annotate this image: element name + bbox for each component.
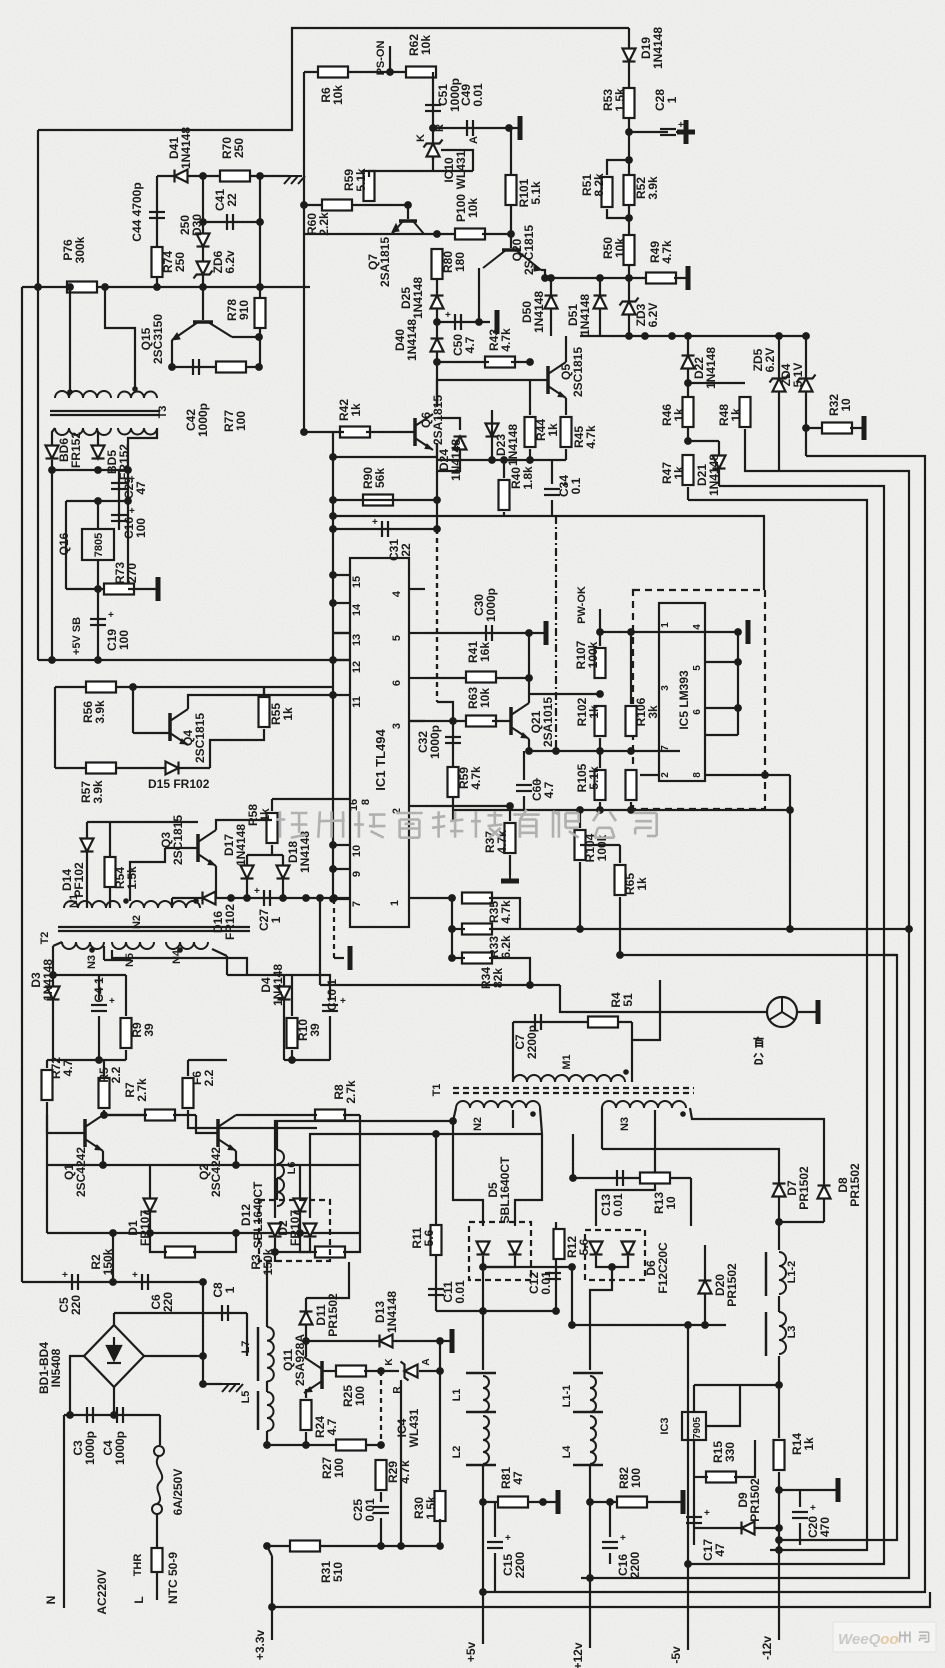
- resistor R45: [561, 417, 572, 447]
- svg-text:IC5 LM393: IC5 LM393: [677, 670, 691, 730]
- svg-text:+12v: +12v: [571, 1642, 585, 1668]
- wire C10 join: [329, 1035, 331, 1060]
- svg-text:3k: 3k: [646, 705, 660, 719]
- resistor R34: [462, 953, 492, 964]
- svg-text:3.9k: 3.9k: [646, 176, 660, 200]
- svg-text:0.01: 0.01: [363, 1498, 377, 1522]
- label C15: [501, 1551, 527, 1578]
- svg-text:470: 470: [818, 1517, 832, 1537]
- svg-text:5.1k: 5.1k: [354, 168, 368, 192]
- junction: [433, 230, 441, 238]
- wire fan stub: [745, 1011, 767, 1013]
- label D19: [639, 27, 665, 69]
- label C30: [472, 588, 498, 622]
- junction: [199, 283, 207, 291]
- wire 7905 bot: [693, 1440, 695, 1545]
- label fan glyphs: [754, 1053, 763, 1063]
- wire C19 col: [97, 589, 99, 657]
- label D25: [399, 277, 425, 319]
- wire Q20 coll wire: [541, 270, 545, 278]
- label R107: [574, 640, 600, 669]
- wire Q20 emit col: [478, 268, 480, 322]
- svg-text:10: 10: [351, 845, 363, 857]
- resistor R73: [104, 584, 134, 595]
- capacitor C3: [87, 1407, 93, 1423]
- wire y898 down: [171, 898, 173, 907]
- wire Q1 base: [47, 1115, 85, 1133]
- junction: [569, 1174, 577, 1182]
- junction: [429, 124, 437, 132]
- wire y810 bottom rail: [453, 809, 790, 811]
- wire R49 gnd stub: [674, 277, 688, 279]
- svg-text:L2: L2: [451, 1446, 463, 1459]
- svg-text:51: 51: [621, 993, 635, 1007]
- wire C16 bot: [609, 1553, 611, 1564]
- svg-text:3.9k: 3.9k: [91, 780, 105, 804]
- label R81: [499, 1467, 525, 1489]
- wire R34 rail2: [489, 958, 530, 985]
- wire R37 bot: [509, 855, 511, 875]
- svg-text:100: 100: [629, 1468, 643, 1488]
- junction: [616, 951, 624, 959]
- label D14: [60, 862, 86, 898]
- junction: [404, 201, 412, 209]
- watermark weeqoo cjk: [899, 1631, 910, 1642]
- svg-text:2200p: 2200p: [525, 1025, 539, 1059]
- inductor L6: [277, 1150, 284, 1206]
- wire T2 tap1: [52, 946, 54, 975]
- svg-text:+: +: [810, 1503, 816, 1514]
- wire +5 col3: [482, 1592, 484, 1644]
- pot P100: [455, 229, 485, 240]
- wire x334 gnd stub: [334, 957, 344, 959]
- svg-text:4: 4: [391, 590, 403, 597]
- wire R3 conn: [300, 1233, 317, 1252]
- wire D4 top: [227, 974, 292, 976]
- resistor R47: [683, 455, 694, 485]
- svg-text:C10 1: C10 1: [325, 979, 339, 1011]
- bridge rectifier BD1-BD4: [84, 1325, 144, 1387]
- capacitor C12: [545, 1273, 561, 1279]
- svg-text:WL431: WL431: [407, 1408, 421, 1447]
- svg-text:300k: 300k: [73, 236, 87, 263]
- junction: [625, 214, 633, 222]
- label R55: [269, 703, 295, 725]
- dual diode D6 box: [585, 1230, 645, 1280]
- junction: [100, 1111, 108, 1119]
- wire R29 bot: [380, 1492, 382, 1502]
- svg-text:R: R: [434, 124, 446, 132]
- junction: [684, 437, 692, 445]
- transistor Q15 body: [172, 322, 232, 340]
- label R59: [342, 168, 368, 192]
- wire T2 tap2c: [104, 958, 130, 960]
- wire D6 down: [590, 1267, 612, 1370]
- wire LM393 pin7: [705, 734, 738, 736]
- label D51: [566, 294, 592, 336]
- label R82: [617, 1467, 643, 1489]
- transformer T3 secondary2: [118, 428, 157, 435]
- label C60: [530, 779, 556, 801]
- svg-text:6A/250V: 6A/250V: [171, 1469, 185, 1516]
- svg-text:1000p: 1000p: [484, 588, 498, 622]
- junction: [525, 674, 533, 682]
- transformer T2 winding N5: [112, 942, 154, 949]
- resistor R62: [406, 67, 436, 78]
- junction: [316, 894, 324, 902]
- wire LM393 right v: [737, 632, 739, 735]
- label C7: [513, 1025, 539, 1059]
- resistor R101: [506, 175, 517, 205]
- svg-text:1.5k: 1.5k: [613, 88, 627, 112]
- label Q20: [510, 225, 536, 275]
- wire C60 bot: [523, 796, 525, 810]
- svg-text:100k: 100k: [586, 641, 600, 668]
- junction: [436, 1542, 444, 1550]
- wire y234: [304, 233, 458, 235]
- junction: [101, 283, 109, 291]
- wire Q7 base stub: [407, 205, 409, 219]
- diode D12b: [304, 1224, 317, 1237]
- wire R44 col: [529, 380, 531, 415]
- wire AC N: [63, 1415, 65, 1608]
- pin 4 stub: [409, 588, 425, 590]
- label R33: [487, 935, 513, 959]
- wire R78 col: [259, 176, 261, 367]
- wire x113: [112, 1233, 114, 1282]
- transformer T2 winding N4: [166, 942, 208, 949]
- wire R55 col: [263, 687, 265, 695]
- label C17: [701, 1539, 727, 1561]
- svg-text:10: 10: [839, 398, 853, 412]
- wire Q20 base stub: [510, 234, 512, 248]
- svg-text:10k: 10k: [331, 85, 345, 105]
- junction: [506, 802, 514, 810]
- label R49: [648, 240, 674, 264]
- junction: [433, 358, 441, 366]
- svg-text:1N4148: 1N4148: [707, 454, 721, 496]
- wire D22 col: [687, 336, 689, 441]
- junction: [296, 1229, 304, 1237]
- wire N2 left end: [453, 1108, 456, 1121]
- capacitor C13: [617, 1170, 623, 1186]
- svg-text:L1-2: L1-2: [786, 1261, 798, 1284]
- label D2: [276, 1210, 302, 1246]
- chassis ground bridge: [220, 1384, 243, 1392]
- wire M1 left: [512, 1022, 514, 1082]
- label C16: [122, 517, 148, 539]
- svg-text:2.2k: 2.2k: [317, 212, 331, 236]
- svg-text:8.2k: 8.2k: [592, 173, 606, 197]
- wire N2 right end: [540, 1108, 542, 1134]
- svg-text:2.7k: 2.7k: [344, 1080, 358, 1104]
- wire R101 col: [510, 128, 512, 234]
- resistor R80: [432, 249, 443, 279]
- wire R11 col: [435, 1134, 437, 1311]
- wire LM393 bottom: [640, 774, 659, 776]
- svg-text:PR1502: PR1502: [725, 1263, 739, 1307]
- wire PS-ON rail: [304, 71, 433, 73]
- svg-text:4: 4: [692, 624, 703, 630]
- wire NTC bot: [156, 1572, 158, 1600]
- wire C16 col: [118, 501, 120, 530]
- wire -5 col: [687, 1325, 689, 1564]
- wire R72 col: [46, 1060, 48, 1068]
- wire N3 ct: [602, 1149, 779, 1172]
- ground bar R32: [862, 416, 867, 440]
- wire F6 bot: [188, 1110, 317, 1128]
- diode D18: [277, 866, 290, 879]
- label R77: [222, 410, 248, 432]
- wire F6 col: [187, 1060, 189, 1076]
- svg-text:47: 47: [511, 1471, 525, 1485]
- svg-text:0.01: 0.01: [611, 1193, 625, 1217]
- wire R15 conn: [694, 1476, 708, 1478]
- regulator IC3 7905 box: [682, 1412, 706, 1440]
- wire R9 col: [125, 975, 127, 1016]
- wire rail y287: [22, 286, 310, 288]
- wire D24 conn: [437, 418, 460, 430]
- junction: [596, 628, 604, 636]
- label R41: [466, 641, 492, 663]
- resistor R77: [216, 362, 246, 373]
- wire bridge left: [70, 1356, 84, 1415]
- wire C50 branch: [437, 321, 490, 323]
- bus wire A: [483, 456, 925, 1592]
- IC U1 TL494 body: [350, 558, 409, 927]
- junction: [302, 894, 310, 902]
- ground bar D13: [450, 1329, 455, 1353]
- phase dot T2b: [193, 898, 199, 904]
- core bar L11: [573, 1372, 603, 1375]
- svg-text:4.7: 4.7: [61, 1059, 75, 1076]
- chassis ground top: [282, 176, 305, 184]
- wire 7805 out: [97, 560, 99, 589]
- core bar L12: [765, 1252, 768, 1296]
- wire Q6 emitter: [423, 443, 437, 457]
- diode D20: [699, 1281, 712, 1294]
- wire +5VSB rail: [38, 659, 350, 661]
- resistor R3: [315, 1247, 345, 1258]
- svg-text:4.7k: 4.7k: [499, 328, 513, 352]
- label D12: [239, 1181, 265, 1248]
- label R3: [249, 1248, 275, 1275]
- wire R33 rail2: [489, 928, 909, 930]
- wire L7 top: [266, 1262, 268, 1327]
- wire C28 gnd stub: [676, 131, 682, 133]
- junction: [668, 332, 676, 340]
- label D8: [836, 1163, 862, 1207]
- svg-text:1N4148: 1N4148: [385, 1291, 399, 1333]
- svg-text:-5v: -5v: [669, 1646, 683, 1664]
- svg-text:0.01: 0.01: [539, 1271, 553, 1295]
- resistor R40: [499, 480, 510, 510]
- svg-text:10k: 10k: [466, 198, 480, 218]
- wire D17 top: [247, 854, 283, 856]
- wire R106 col: [630, 632, 632, 704]
- junction: [761, 771, 769, 779]
- wire D2 col: [299, 1165, 301, 1233]
- label ZD3: [634, 303, 660, 328]
- label C19: [105, 629, 131, 651]
- resistor R106b: [626, 770, 637, 800]
- svg-text:1000p: 1000p: [196, 403, 210, 437]
- wire R5 col: [103, 1060, 105, 1076]
- wire sense y955: [620, 954, 897, 956]
- junction: [377, 1367, 385, 1375]
- wire R9 bot: [125, 1050, 127, 1060]
- wire Q4 base: [133, 732, 170, 734]
- svg-text:WeeQoo: WeeQoo: [838, 1631, 899, 1648]
- core bar L1b: [466, 1411, 496, 1414]
- resistor R70: [220, 171, 250, 182]
- resistor R53: [624, 88, 635, 118]
- junction: [625, 128, 633, 136]
- resistor R74: [152, 247, 163, 277]
- svg-text:10: 10: [664, 1196, 678, 1210]
- wire x333: [332, 432, 334, 603]
- svg-text:5.1V: 5.1V: [791, 363, 805, 388]
- junction: [734, 658, 742, 666]
- diode D12a: [269, 1224, 282, 1237]
- svg-text:16k: 16k: [478, 642, 492, 662]
- pin 8 stub: [333, 798, 350, 800]
- junction: [786, 806, 794, 814]
- svg-text:L5: L5: [240, 1391, 252, 1404]
- wire y1445: [267, 1444, 381, 1446]
- junction: [449, 717, 457, 725]
- wire pin2 rail: [425, 805, 510, 807]
- svg-text:250: 250: [232, 138, 246, 158]
- transistor Q4: [170, 709, 188, 745]
- wire R105 col: [599, 738, 601, 768]
- svg-text:100: 100: [234, 411, 248, 431]
- wire x556 dashdot: [555, 516, 557, 751]
- label D23: [494, 424, 520, 466]
- wire C32 jog: [437, 702, 453, 721]
- svg-text:FR102: FR102: [223, 904, 237, 940]
- svg-text:1.5k: 1.5k: [424, 1496, 438, 1520]
- junction: [432, 1130, 440, 1138]
- svg-text:4.7: 4.7: [325, 1418, 339, 1435]
- zener ZD6: [194, 262, 213, 279]
- svg-text:L: L: [132, 1596, 146, 1603]
- label R106: [634, 697, 660, 726]
- resistor R46: [683, 397, 694, 427]
- ground bar LM393: [746, 620, 751, 644]
- svg-text:L1: L1: [451, 1389, 463, 1402]
- label Q3: [159, 815, 185, 865]
- svg-text:270: 270: [125, 563, 139, 583]
- transformer T3 primary: [55, 391, 111, 398]
- wire C10 bot: [329, 1016, 331, 1035]
- diode D1: [144, 1199, 157, 1212]
- junction: [552, 747, 560, 755]
- resistor R9: [121, 1018, 132, 1048]
- junction: [99, 1161, 107, 1169]
- diode D2: [294, 1199, 307, 1212]
- wire x437 dashed: [436, 529, 438, 700]
- label C51: [436, 78, 462, 112]
- wire C15 col: [494, 1502, 496, 1537]
- junction: [525, 747, 533, 755]
- resistor R12: [554, 1229, 565, 1259]
- inductor L5: [267, 1392, 274, 1431]
- diode D16: [203, 892, 216, 905]
- wire Q5 base: [530, 379, 548, 381]
- label R47: [660, 462, 686, 484]
- ground C28: [677, 131, 695, 133]
- svg-text:12: 12: [351, 661, 363, 673]
- wire y460: [437, 459, 566, 461]
- junction: [199, 218, 207, 226]
- wire D20 col: [704, 1245, 706, 1325]
- label R13: [652, 1192, 678, 1214]
- svg-text:+: +: [678, 120, 684, 131]
- svg-text:1k: 1k: [349, 403, 363, 417]
- label D18: [286, 831, 312, 873]
- wire Q3 emitter: [215, 866, 217, 898]
- resistor R33: [462, 924, 492, 935]
- diode D8: [818, 1186, 831, 1199]
- wire Q2 emit: [235, 1151, 237, 1165]
- svg-text:4.7k: 4.7k: [469, 766, 483, 790]
- wire D11 top: [306, 1262, 349, 1298]
- label C6: [149, 1292, 175, 1312]
- diode D50: [545, 296, 558, 309]
- label R57: [79, 780, 105, 804]
- resistor R72: [42, 1070, 53, 1100]
- label R59c: [457, 766, 483, 790]
- svg-text:4.7k: 4.7k: [499, 900, 513, 924]
- label C29: [122, 477, 148, 499]
- label R45: [572, 425, 598, 449]
- wire T3 sec left: [52, 428, 55, 446]
- svg-text:6: 6: [692, 709, 703, 715]
- junction: [329, 656, 337, 664]
- junction: [701, 1321, 709, 1329]
- label Q7: [366, 237, 392, 287]
- diode D9: [742, 1522, 755, 1535]
- svg-text:7: 7: [351, 901, 363, 907]
- junction PS-ON: [386, 68, 394, 76]
- wire R51 branch: [607, 160, 629, 175]
- svg-text:2.2: 2.2: [109, 1066, 123, 1083]
- pin 11 stub: [333, 694, 350, 696]
- label C3: [71, 1431, 97, 1465]
- inductor L4: [590, 1416, 596, 1464]
- wire T3 sec mid: [97, 432, 99, 446]
- wire y1502a: [483, 1501, 558, 1503]
- junction: [479, 1307, 487, 1315]
- phase dot N2: [530, 1111, 536, 1117]
- svg-text:1: 1: [269, 916, 283, 923]
- wire y751: [529, 750, 601, 752]
- wire +5 col: [482, 1267, 484, 1370]
- svg-text:16: 16: [348, 799, 360, 811]
- junction: [288, 1056, 296, 1064]
- svg-text:IN5408: IN5408: [49, 1348, 63, 1387]
- capacitor C49: [467, 120, 473, 136]
- wire Q3 base: [165, 847, 198, 849]
- wire R104 col: [579, 810, 581, 828]
- wire rail y336: [580, 335, 806, 337]
- wire C49 rail: [433, 127, 511, 129]
- pin 6 stub: [409, 677, 425, 679]
- label ZD6: [211, 250, 237, 274]
- wire x691 d6: [690, 1178, 692, 1226]
- svg-text:+5v: +5v: [464, 1641, 478, 1662]
